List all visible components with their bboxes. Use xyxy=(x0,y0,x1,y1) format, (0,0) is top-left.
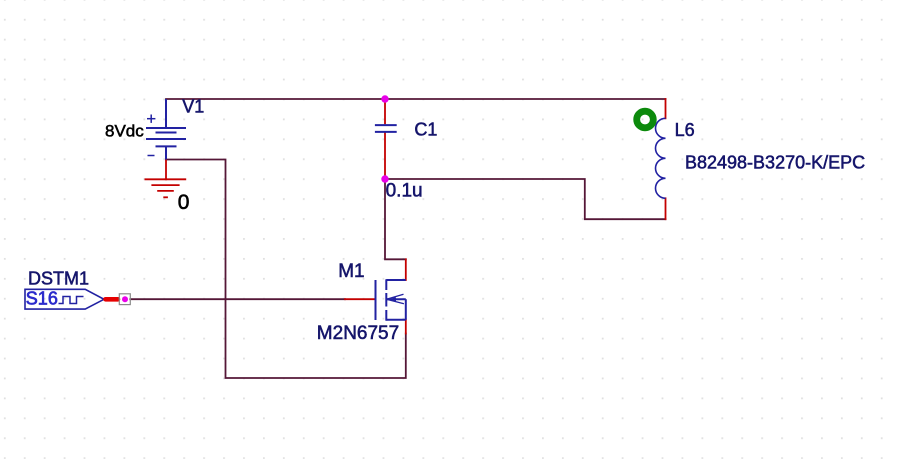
svg-text:C1: C1 xyxy=(414,120,437,140)
svg-text:B82498-B3270-K/EPC: B82498-B3270-K/EPC xyxy=(685,153,865,173)
svg-text:0.1u: 0.1u xyxy=(386,180,423,201)
svg-text:8Vdc: 8Vdc xyxy=(105,122,144,141)
svg-text:V1: V1 xyxy=(182,96,204,116)
svg-text:L6: L6 xyxy=(675,120,695,140)
svg-text:DSTM1: DSTM1 xyxy=(28,268,89,288)
svg-text:M2N6757: M2N6757 xyxy=(317,323,399,344)
svg-text:S16: S16 xyxy=(26,289,58,309)
svg-text:M1: M1 xyxy=(338,261,364,282)
svg-text:0: 0 xyxy=(178,191,190,214)
